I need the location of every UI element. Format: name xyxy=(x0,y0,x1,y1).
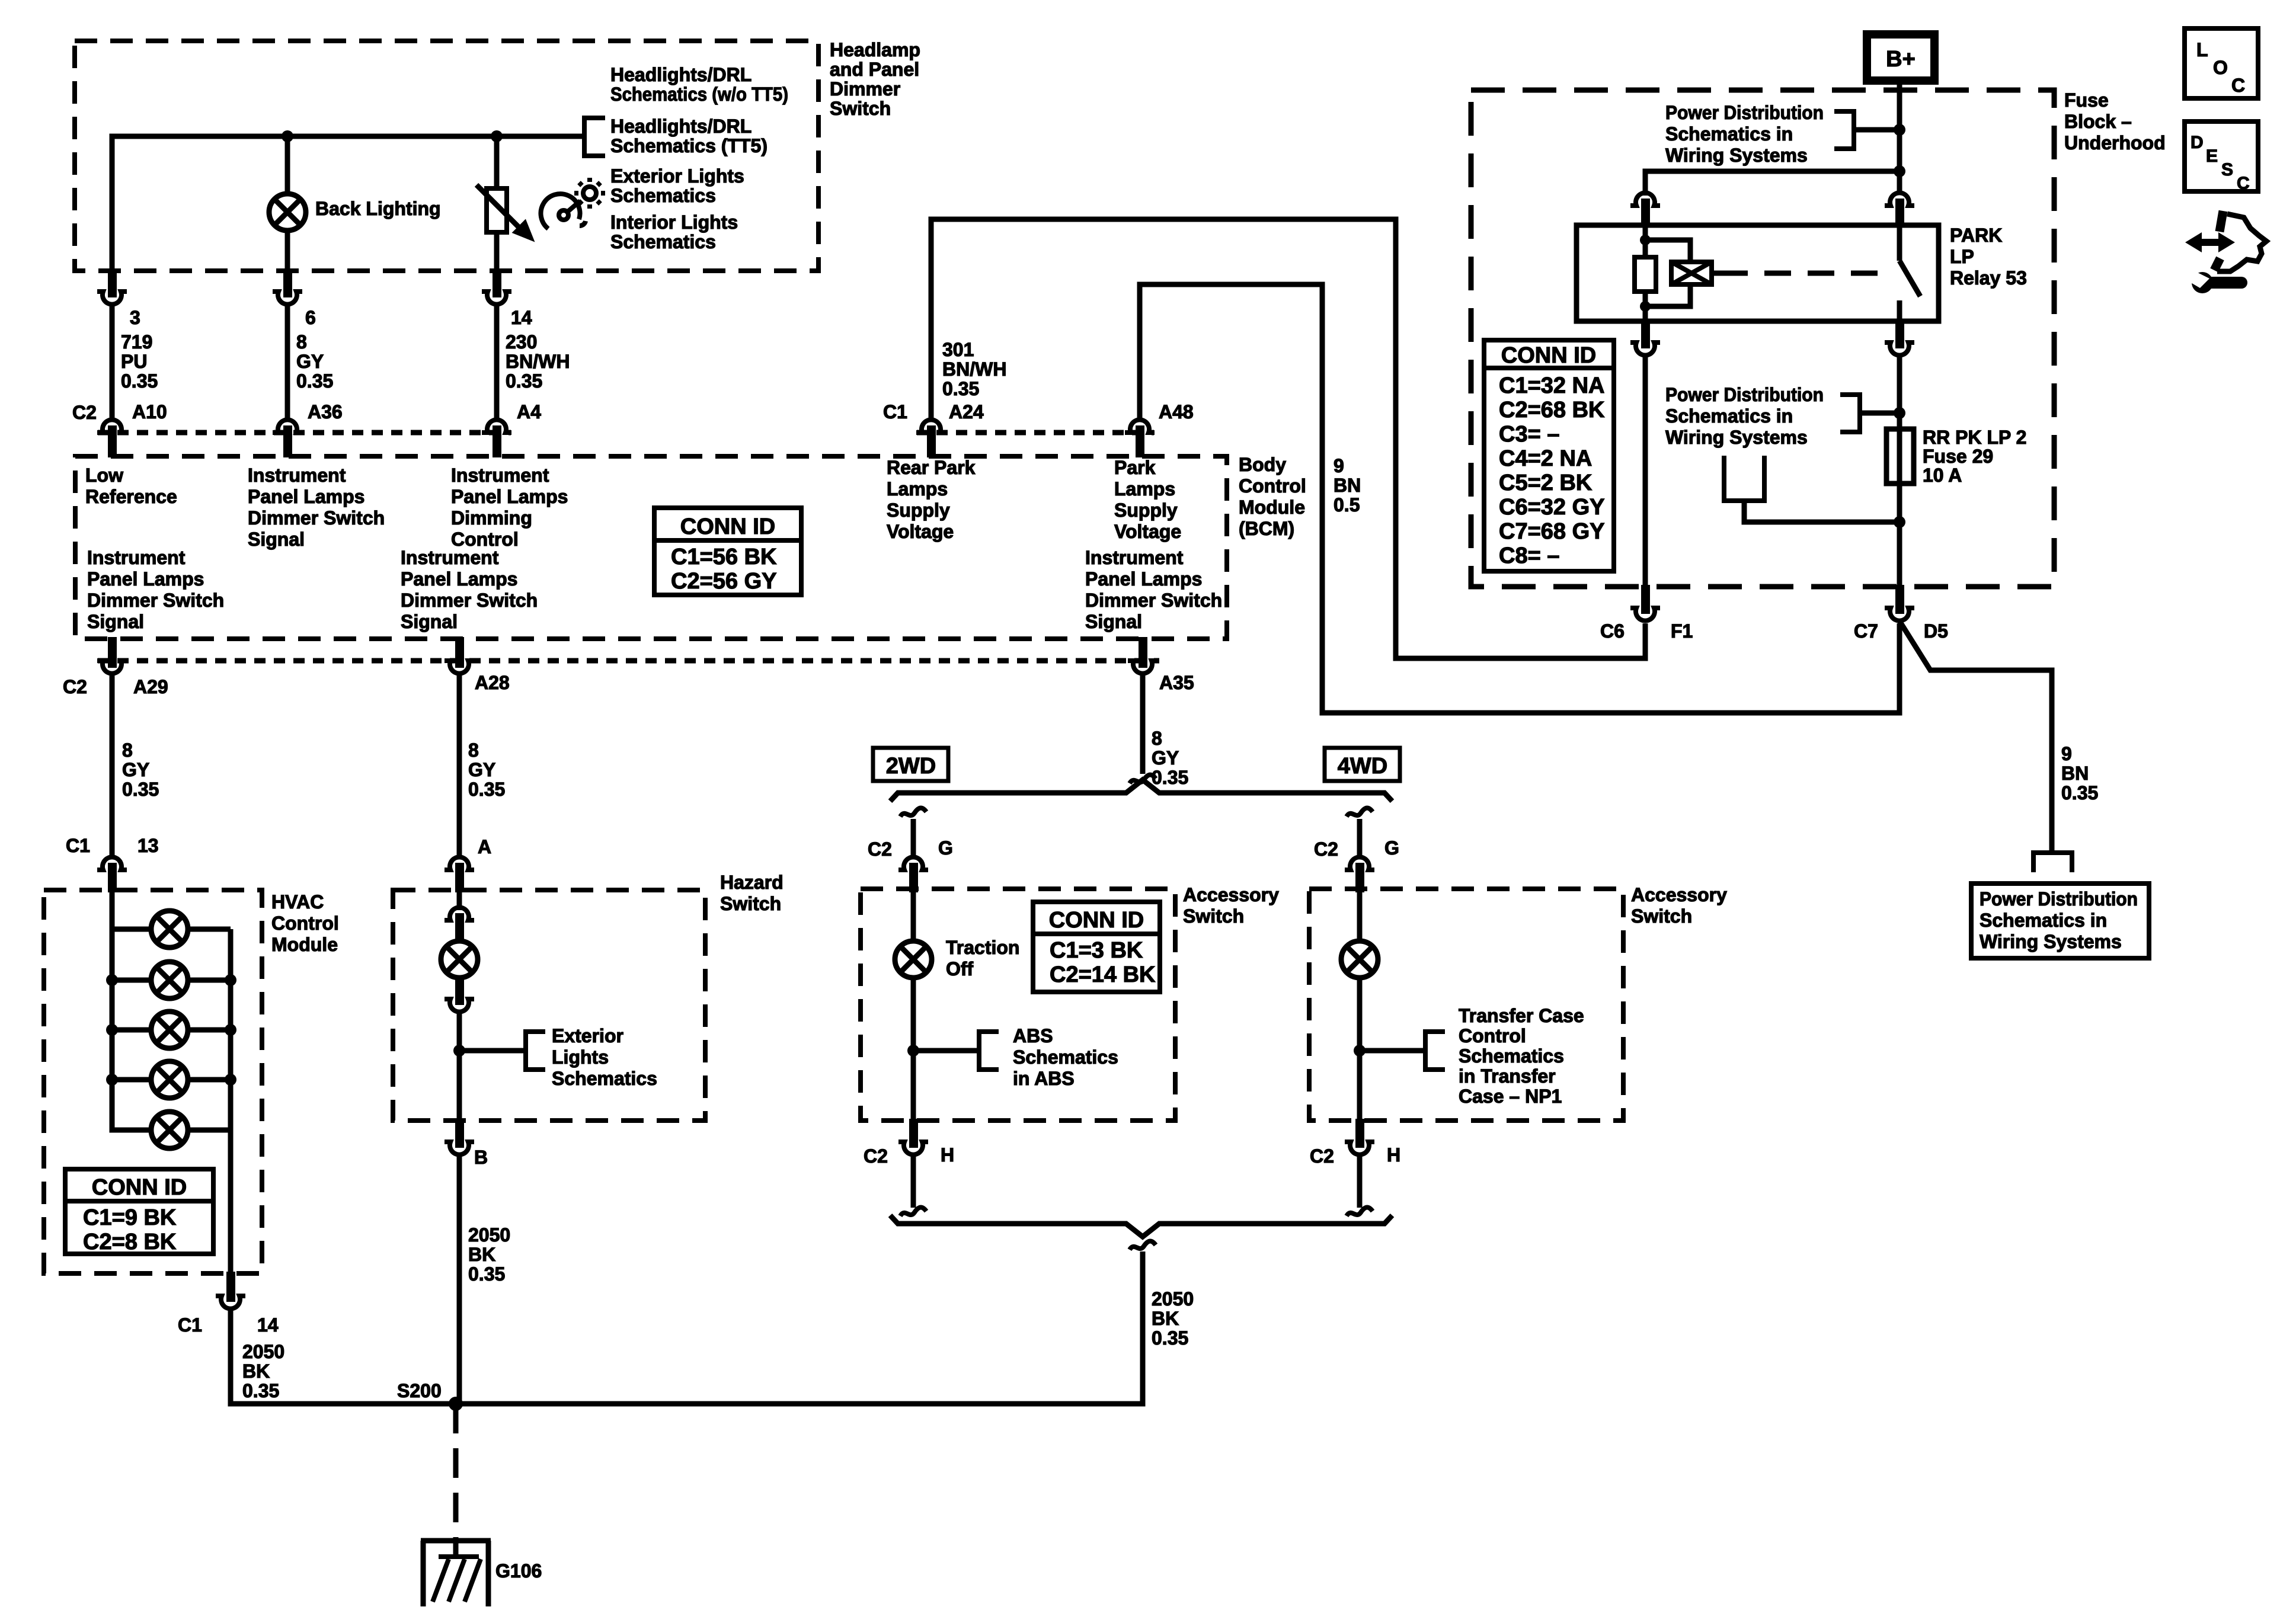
node: power distribution tap 1 xyxy=(1894,124,1905,136)
svg-text:A10: A10 xyxy=(132,401,167,422)
hazard switch box xyxy=(393,890,705,1121)
svg-text:G: G xyxy=(1384,837,1399,859)
CONN ID box (fuse block) xyxy=(1484,340,1614,571)
svg-text:Headlights/DRL: Headlights/DRL xyxy=(610,116,752,137)
bracket: Exterior Lights Schematics xyxy=(526,1032,545,1070)
wire: rheostat to pin 14 xyxy=(494,232,500,273)
connector C7-D5 xyxy=(1895,585,1904,614)
HVAC left bus wire xyxy=(112,892,151,1130)
lamp HVAC 1 xyxy=(151,911,188,948)
node: dimming control tap xyxy=(491,130,503,142)
svg-text:Lamps: Lamps xyxy=(887,478,948,500)
svg-text:A: A xyxy=(478,836,491,857)
svg-text:Wiring Systems: Wiring Systems xyxy=(1665,145,1808,166)
LOC reference box xyxy=(2185,28,2258,98)
connector: lamp socket bottom xyxy=(455,977,464,1005)
svg-text:Headlamp: Headlamp xyxy=(830,39,920,60)
svg-text:Voltage: Voltage xyxy=(1114,521,1181,542)
wire below C2-H left xyxy=(911,1155,916,1208)
connector line C2 row2 xyxy=(98,658,1159,664)
relay actuator dashed line xyxy=(1721,271,1878,276)
svg-text:Schematics (TT5): Schematics (TT5) xyxy=(610,135,768,156)
svg-text:PU: PU xyxy=(121,351,147,372)
wire to 4wd lamp xyxy=(1357,891,1363,941)
svg-text:Wiring Systems: Wiring Systems xyxy=(1665,427,1808,448)
svg-text:D: D xyxy=(2191,133,2204,152)
svg-text:Instrument: Instrument xyxy=(87,547,186,568)
svg-text:Panel Lamps: Panel Lamps xyxy=(451,486,568,507)
svg-text:230: 230 xyxy=(506,331,537,353)
wire 230 BN/WH xyxy=(494,305,500,418)
node coil top xyxy=(1640,235,1651,245)
svg-text:Low: Low xyxy=(85,465,123,486)
svg-text:CONN ID: CONN ID xyxy=(92,1175,187,1200)
svg-text:L: L xyxy=(2196,39,2208,60)
svg-text:C6: C6 xyxy=(1600,620,1625,642)
svg-text:Accessory: Accessory xyxy=(1631,884,1727,905)
wire: lamp to pin 6 xyxy=(285,231,290,273)
connector A36 xyxy=(273,420,302,433)
svg-text:C2=8 BK: C2=8 BK xyxy=(83,1230,177,1254)
svg-text:BN/WH: BN/WH xyxy=(942,359,1006,380)
label: Power Distribution Schematics 1 xyxy=(1665,102,1824,166)
svg-text:8: 8 xyxy=(1152,728,1162,749)
svg-text:Dimmer Switch: Dimmer Switch xyxy=(401,590,538,611)
svg-text:2050: 2050 xyxy=(468,1224,510,1246)
svg-text:CONN ID: CONN ID xyxy=(1049,908,1144,933)
svg-text:C2: C2 xyxy=(868,838,892,860)
wire: ground drop (dashed) xyxy=(453,1404,459,1541)
wire to transfer case bracket xyxy=(1360,1048,1425,1054)
svg-text:8: 8 xyxy=(122,740,133,761)
svg-text:C7=68 GY: C7=68 GY xyxy=(1499,519,1605,544)
svg-text:C1: C1 xyxy=(178,1314,202,1336)
connector A10 xyxy=(97,420,127,433)
connector A48 xyxy=(1125,420,1155,433)
wire 2050 BK to S200 line xyxy=(461,1251,1143,1404)
connector A (hazard) xyxy=(445,857,474,870)
svg-text:Control: Control xyxy=(1239,475,1306,497)
svg-text:Power Distribution: Power Distribution xyxy=(1980,888,2138,910)
wire: right branch to C2-G xyxy=(1357,819,1363,858)
svg-text:Supply: Supply xyxy=(887,500,950,521)
svg-text:Signal: Signal xyxy=(248,529,305,550)
accessory switch box right xyxy=(1309,889,1623,1121)
ground G106 xyxy=(421,1541,542,1606)
bracket: Headlights/DRL Schematics (TT5) reference xyxy=(584,118,605,156)
wire 8 GY from A35 xyxy=(1140,674,1146,774)
connector C2-H left xyxy=(909,1119,918,1148)
wire bracket1 to B+ wire xyxy=(1854,127,1900,133)
svg-text:Module: Module xyxy=(1239,497,1305,518)
wire: left branch to C2-G xyxy=(911,819,916,858)
node: back lighting tap xyxy=(282,130,293,142)
label: reference list xyxy=(610,64,788,252)
bracket: power distribution 2 xyxy=(1840,395,1860,432)
svg-text:Schematics: Schematics xyxy=(610,185,716,206)
wire lamp rails xyxy=(112,927,151,932)
label C2 row2 xyxy=(63,676,87,697)
svg-text:10 A: 10 A xyxy=(1923,465,1962,486)
relay PARK LP Relay 53 box xyxy=(1576,225,1939,321)
svg-text:0.35: 0.35 xyxy=(942,378,979,399)
wire: top branch brace xyxy=(890,780,1392,801)
wire 8 GY from A29 xyxy=(110,674,115,857)
wire break right bottom xyxy=(1347,1208,1373,1217)
wire 8 GY xyxy=(285,305,290,418)
svg-text:Fuse: Fuse xyxy=(2064,89,2109,111)
BCM pin labels row1 xyxy=(85,457,1181,550)
svg-text:Instrument: Instrument xyxy=(401,547,499,568)
svg-text:C2=14 BK: C2=14 BK xyxy=(1050,962,1156,987)
pin 3 stub xyxy=(108,271,117,297)
bracket: ABS Schematics xyxy=(979,1032,999,1070)
lamp HVAC 3 xyxy=(151,1012,188,1048)
svg-text:Park: Park xyxy=(1114,457,1156,478)
wire: traction lamp low side xyxy=(911,978,916,1121)
connector A35 xyxy=(1139,637,1147,668)
svg-text:0.35: 0.35 xyxy=(122,779,159,800)
wire 2050 BK to S200 xyxy=(231,1309,456,1404)
headlamp and panel dimmer switch box xyxy=(75,41,818,271)
wire: 4wd lamp low side xyxy=(1357,978,1363,1121)
svg-text:0.35: 0.35 xyxy=(1152,1327,1188,1349)
wire coil return to C6 xyxy=(1643,356,1648,587)
node: power distribution tap 2 xyxy=(1894,407,1905,419)
svg-text:0.35: 0.35 xyxy=(121,370,158,392)
wire 9 BN 0.5: A48 up over to C7 xyxy=(1140,284,1900,713)
svg-text:A35: A35 xyxy=(1159,672,1194,693)
svg-text:Signal: Signal xyxy=(87,611,144,632)
connector C2-G left xyxy=(898,857,928,870)
wire 719 PU xyxy=(110,305,115,418)
wire break bottom squiggle xyxy=(1130,1241,1156,1250)
wire 301 BN/WH: A24 up over to C6 xyxy=(931,219,1645,658)
node: exterior lights tap xyxy=(453,1045,465,1057)
icon: jump arrow with wrench xyxy=(2185,211,2266,293)
svg-text:Rear Park: Rear Park xyxy=(887,457,976,478)
svg-text:Lamps: Lamps xyxy=(1114,478,1175,500)
svg-text:Panel Lamps: Panel Lamps xyxy=(1085,568,1202,590)
connector C1-14 xyxy=(226,1272,235,1302)
svg-text:Transfer Case: Transfer Case xyxy=(1459,1005,1584,1026)
HVAC right bus wire xyxy=(228,929,234,1273)
svg-text:Switch: Switch xyxy=(1631,905,1692,927)
svg-text:Headlights/DRL: Headlights/DRL xyxy=(610,64,752,85)
svg-text:ABS: ABS xyxy=(1013,1025,1053,1046)
svg-text:14: 14 xyxy=(257,1314,279,1336)
CONN ID box (accessory) xyxy=(1033,902,1160,992)
label C1 xyxy=(883,401,907,422)
svg-text:2WD: 2WD xyxy=(886,754,936,779)
svg-text:GY: GY xyxy=(1152,747,1179,769)
svg-text:9: 9 xyxy=(1334,455,1344,476)
node S200 xyxy=(397,1380,442,1401)
label: Accessory Switch right xyxy=(1631,884,1727,927)
svg-text:Schematics in: Schematics in xyxy=(1665,123,1793,145)
connector relay coil top xyxy=(1630,193,1660,206)
svg-text:GY: GY xyxy=(468,759,495,780)
svg-text:Relay 53: Relay 53 xyxy=(1950,267,2027,289)
svg-text:Schematics in: Schematics in xyxy=(1980,910,2107,931)
connector pin 3 xyxy=(97,292,127,305)
svg-text:Lights: Lights xyxy=(552,1046,609,1068)
label A (hazard pin) xyxy=(478,836,491,857)
connector C2-H right xyxy=(1355,1119,1364,1148)
svg-text:Exterior Lights: Exterior Lights xyxy=(610,165,744,187)
svg-text:C3= –: C3= – xyxy=(1499,422,1559,447)
svg-text:0.35: 0.35 xyxy=(468,1263,505,1285)
bracket: power distribution outlet xyxy=(2033,853,2072,872)
svg-text:Signal: Signal xyxy=(1085,611,1142,632)
4WD box xyxy=(1325,748,1400,781)
resistor: relay coil xyxy=(1635,257,1656,292)
connector A28 xyxy=(455,637,464,668)
svg-text:GY: GY xyxy=(296,351,324,372)
body control module box xyxy=(75,456,1227,639)
wire to traction lamp xyxy=(911,891,916,941)
svg-text:in Transfer: in Transfer xyxy=(1459,1065,1556,1087)
svg-text:LP: LP xyxy=(1950,246,1974,267)
wire 2050 BK hazard to S200 xyxy=(457,1155,462,1404)
pin 6 stub xyxy=(283,271,292,297)
svg-text:A24: A24 xyxy=(949,401,984,422)
wire 8 GY from A28 xyxy=(457,674,462,857)
connector relay switch bottom xyxy=(1895,321,1904,348)
svg-text:9: 9 xyxy=(2061,743,2072,764)
connector line C1 row xyxy=(917,430,1154,436)
label: Hazard Switch xyxy=(720,872,784,914)
lamp HVAC 5 xyxy=(151,1112,188,1148)
svg-text:Supply: Supply xyxy=(1114,500,1178,521)
wire: dimmer switch feed bus xyxy=(112,136,584,273)
svg-text:Wiring Systems: Wiring Systems xyxy=(1980,931,2122,952)
connector C2-G right xyxy=(1345,857,1374,870)
relay switch contact xyxy=(1900,225,1920,321)
wire: rheostat branch xyxy=(494,136,500,188)
svg-text:C2: C2 xyxy=(864,1145,888,1167)
svg-text:A36: A36 xyxy=(308,401,343,422)
svg-text:Control: Control xyxy=(1459,1025,1526,1046)
svg-text:Switch: Switch xyxy=(720,893,781,914)
wire break left bottom xyxy=(900,1208,926,1217)
label C2-G left xyxy=(868,837,953,860)
connector pin 6 xyxy=(273,292,302,305)
lamp: Back Lighting xyxy=(269,194,306,231)
bracket: power distribution 1 xyxy=(1834,111,1854,149)
wire C7 to 9 BN drop xyxy=(1900,621,2052,853)
svg-text:Instrument: Instrument xyxy=(1085,547,1184,568)
svg-text:0.35: 0.35 xyxy=(2061,782,2098,804)
connector C1-13 xyxy=(97,857,127,870)
svg-text:(BCM): (BCM) xyxy=(1239,518,1294,539)
svg-text:C8= –: C8= – xyxy=(1499,543,1559,568)
svg-text:C2: C2 xyxy=(63,676,87,697)
label: Accessory Switch left xyxy=(1183,884,1279,927)
node: transfer case tap xyxy=(1354,1045,1366,1057)
svg-text:PARK: PARK xyxy=(1950,225,2002,246)
connector line C2 row xyxy=(98,430,511,436)
svg-text:BK: BK xyxy=(242,1361,270,1382)
svg-text:RR PK LP 2: RR PK LP 2 xyxy=(1923,427,2026,448)
bracket: power distribution underfeed xyxy=(1724,456,1764,501)
connector relay coil bottom xyxy=(1641,321,1650,348)
svg-text:BK: BK xyxy=(1152,1308,1179,1329)
wire to bracket xyxy=(459,1048,526,1054)
svg-text:Panel Lamps: Panel Lamps xyxy=(401,568,517,590)
svg-text:GY: GY xyxy=(122,759,149,780)
svg-text:Dimming: Dimming xyxy=(451,507,532,529)
connector relay switch top xyxy=(1885,193,1914,206)
svg-text:A28: A28 xyxy=(475,672,510,693)
svg-text:C1=56 BK: C1=56 BK xyxy=(671,545,777,569)
svg-text:Dimmer Switch: Dimmer Switch xyxy=(1085,590,1222,611)
CONN ID box (HVAC) xyxy=(65,1169,213,1254)
lamp hazard xyxy=(441,941,478,978)
svg-text:3: 3 xyxy=(130,307,140,328)
label: HVAC Control Module xyxy=(271,891,339,955)
svg-text:H: H xyxy=(1387,1144,1400,1166)
node: underfeed tap xyxy=(1894,516,1905,528)
svg-text:719: 719 xyxy=(121,331,152,353)
label: Power Distribution Schematics 2 xyxy=(1665,384,1824,448)
node: ABS tap xyxy=(907,1045,919,1057)
svg-text:C1=32 NA: C1=32 NA xyxy=(1499,373,1604,398)
wire into hazard switch xyxy=(457,890,462,910)
svg-text:Schematics: Schematics xyxy=(1013,1046,1118,1068)
wire: bottom branch brace xyxy=(890,1215,1392,1237)
svg-text:C1: C1 xyxy=(66,835,90,856)
svg-text:13: 13 xyxy=(137,835,159,856)
svg-text:Hazard: Hazard xyxy=(720,872,784,893)
svg-text:B: B xyxy=(474,1147,488,1168)
svg-text:Interior Lights: Interior Lights xyxy=(610,212,738,233)
svg-text:A4: A4 xyxy=(517,401,541,422)
HVAC control module box xyxy=(44,890,262,1273)
fuse block underhood box xyxy=(1471,90,2054,587)
lamp Traction Off xyxy=(895,941,932,978)
svg-text:CONN ID: CONN ID xyxy=(1501,343,1596,368)
connector A4 xyxy=(482,420,511,433)
svg-text:O: O xyxy=(2213,57,2228,78)
svg-text:Schematics: Schematics xyxy=(552,1068,657,1089)
svg-text:301: 301 xyxy=(942,339,974,360)
wire break right xyxy=(1347,808,1373,817)
svg-text:Module: Module xyxy=(271,934,338,955)
DESC reference box xyxy=(2185,121,2258,193)
svg-text:CONN ID: CONN ID xyxy=(680,514,775,539)
label C1 / 13 xyxy=(66,835,159,856)
svg-text:0.35: 0.35 xyxy=(506,370,542,392)
svg-text:D5: D5 xyxy=(1924,620,1948,642)
node: left bus junctions xyxy=(106,974,118,986)
svg-text:8: 8 xyxy=(468,740,479,761)
svg-text:Case – NP1: Case – NP1 xyxy=(1459,1086,1562,1107)
node: relay coil feed tap xyxy=(1894,165,1905,177)
reference box: Power Distribution Schematics in Wiring Systems xyxy=(1971,884,2149,958)
pin 14 stub xyxy=(493,271,501,297)
2WD box xyxy=(873,748,948,781)
wire bracket2 to fuse wire xyxy=(1860,411,1900,416)
svg-text:Schematics: Schematics xyxy=(1459,1045,1564,1067)
svg-text:C5=2 BK: C5=2 BK xyxy=(1499,470,1593,495)
connector B xyxy=(455,1119,464,1148)
svg-text:C1=3 BK: C1=3 BK xyxy=(1050,938,1143,963)
svg-text:Off: Off xyxy=(946,958,974,980)
svg-text:Instrument: Instrument xyxy=(451,465,549,486)
CONN ID box (BCM) xyxy=(654,508,801,595)
connector C6-F1 xyxy=(1641,585,1650,614)
svg-text:G106: G106 xyxy=(495,1560,542,1582)
svg-text:H: H xyxy=(941,1144,954,1166)
svg-text:6: 6 xyxy=(305,307,316,328)
svg-text:BK: BK xyxy=(468,1244,495,1265)
accessory switch box left xyxy=(861,889,1175,1121)
svg-text:4WD: 4WD xyxy=(1338,754,1387,779)
wire break left xyxy=(900,808,926,817)
wire B+ down to relay xyxy=(1897,81,1902,192)
label C2-G right xyxy=(1314,837,1399,860)
svg-text:HVAC: HVAC xyxy=(271,891,324,913)
svg-text:Switch: Switch xyxy=(1183,905,1244,927)
svg-text:Panel Lamps: Panel Lamps xyxy=(87,568,204,590)
svg-text:0.5: 0.5 xyxy=(1334,494,1360,516)
svg-text:Dimmer: Dimmer xyxy=(830,78,900,100)
svg-text:BN: BN xyxy=(2061,763,2089,784)
svg-text:0.35: 0.35 xyxy=(296,370,333,392)
svg-text:Schematics in: Schematics in xyxy=(1665,405,1793,427)
svg-text:and Panel: and Panel xyxy=(830,59,919,80)
svg-text:BN/WH: BN/WH xyxy=(506,351,570,372)
svg-text:Body: Body xyxy=(1239,454,1286,475)
node: right bus junctions xyxy=(225,974,236,986)
svg-text:C2: C2 xyxy=(1310,1145,1334,1167)
wire diode to actuator xyxy=(1712,271,1721,276)
lamp HVAC 2 xyxy=(151,962,188,998)
svg-text:Underhood: Underhood xyxy=(2064,132,2166,153)
wire below C2-H right xyxy=(1357,1155,1363,1208)
label C2 xyxy=(72,402,97,423)
svg-text:E: E xyxy=(2206,146,2218,166)
terminal B+ xyxy=(1867,34,1934,81)
svg-text:0.35: 0.35 xyxy=(468,779,505,800)
BCM pin labels row2 xyxy=(87,547,1222,632)
wire break squiggle A35 xyxy=(1130,775,1156,784)
svg-text:Switch: Switch xyxy=(830,98,891,119)
svg-text:C4=2 NA: C4=2 NA xyxy=(1499,446,1592,471)
svg-text:S: S xyxy=(2221,160,2233,180)
svg-text:C6=32 GY: C6=32 GY xyxy=(1499,495,1605,520)
lamp HVAC 4 xyxy=(151,1061,188,1098)
label: Fuse Block Underhood xyxy=(2064,89,2166,153)
svg-text:Power Distribution: Power Distribution xyxy=(1665,102,1824,123)
svg-text:C1=9 BK: C1=9 BK xyxy=(83,1205,177,1230)
wire: coil feed across xyxy=(1645,171,1900,196)
svg-text:Signal: Signal xyxy=(401,611,458,632)
svg-text:Schematics: Schematics xyxy=(610,231,716,252)
svg-text:8: 8 xyxy=(296,331,307,353)
svg-text:14: 14 xyxy=(511,307,532,328)
svg-text:2050: 2050 xyxy=(1152,1288,1194,1310)
icon: gauge with lamp (panel dimming) xyxy=(541,178,605,229)
diode: relay suppression xyxy=(1671,262,1712,284)
svg-text:C: C xyxy=(2231,75,2245,96)
svg-text:Dimmer Switch: Dimmer Switch xyxy=(87,590,224,611)
svg-text:C2=56 GY: C2=56 GY xyxy=(671,569,777,594)
svg-text:Fuse 29: Fuse 29 xyxy=(1923,446,1993,467)
svg-text:Accessory: Accessory xyxy=(1183,884,1279,905)
wire switch out through fuse to C7 xyxy=(1897,356,1902,587)
